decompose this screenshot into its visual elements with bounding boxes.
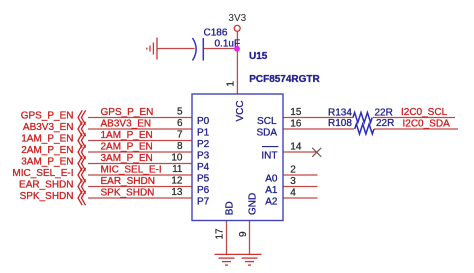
svg-text:C186: C186: [204, 27, 228, 38]
svg-text:7: 7: [177, 130, 183, 141]
svg-text:0.1uF: 0.1uF: [215, 38, 241, 49]
svg-text:I2C0_SDA: I2C0_SDA: [403, 118, 451, 129]
svg-text:GND: GND: [247, 193, 258, 215]
svg-text:P7: P7: [197, 197, 210, 208]
svg-text:MIC_SEL_E-I: MIC_SEL_E-I: [12, 168, 73, 179]
svg-text:P4: P4: [197, 162, 210, 173]
svg-text:VCC: VCC: [235, 100, 246, 121]
svg-text:15: 15: [290, 107, 302, 118]
svg-text:P2: P2: [197, 139, 210, 150]
svg-text:AB3V3_EN: AB3V3_EN: [23, 122, 74, 133]
svg-text:16: 16: [290, 119, 302, 130]
svg-text:GPS_P_EN: GPS_P_EN: [101, 107, 154, 118]
svg-text:I2C0_SCL: I2C0_SCL: [401, 107, 448, 118]
svg-text:GPS_P_EN: GPS_P_EN: [21, 111, 74, 122]
svg-text:SPK_SHDN: SPK_SHDN: [20, 191, 74, 202]
svg-text:P3: P3: [197, 151, 210, 162]
svg-text:BD: BD: [224, 201, 235, 215]
svg-text:17: 17: [214, 228, 225, 240]
svg-text:1AM_P_EN: 1AM_P_EN: [21, 134, 73, 145]
svg-text:2: 2: [290, 165, 296, 176]
svg-text:14: 14: [290, 142, 302, 153]
svg-text:SPK_SHDN: SPK_SHDN: [101, 188, 155, 199]
svg-text:1AM_P_EN: 1AM_P_EN: [101, 130, 153, 141]
svg-text:8: 8: [177, 141, 183, 152]
svg-text:EAR_SHDN: EAR_SHDN: [19, 180, 73, 191]
svg-text:3AM_P_EN: 3AM_P_EN: [101, 153, 153, 164]
svg-text:U15: U15: [249, 51, 268, 62]
svg-text:R108: R108: [328, 118, 352, 129]
svg-text:13: 13: [171, 187, 183, 198]
svg-text:2AM_P_EN: 2AM_P_EN: [101, 142, 153, 153]
svg-text:AB3V3_EN: AB3V3_EN: [101, 119, 152, 130]
svg-text:MIC_SEL_E-I: MIC_SEL_E-I: [101, 165, 162, 176]
svg-text:3AM_P_EN: 3AM_P_EN: [21, 157, 73, 168]
svg-text:11: 11: [172, 164, 183, 175]
svg-text:22R: 22R: [376, 118, 394, 129]
svg-text:P5: P5: [197, 174, 210, 185]
svg-text:6: 6: [177, 118, 183, 129]
svg-text:PCF8574RGTR: PCF8574RGTR: [249, 74, 320, 85]
svg-text:3V3: 3V3: [228, 13, 246, 24]
svg-text:1: 1: [225, 81, 236, 87]
svg-text:P0: P0: [197, 116, 210, 127]
svg-text:2AM_P_EN: 2AM_P_EN: [21, 145, 73, 156]
svg-text:3: 3: [290, 176, 296, 187]
svg-text:12: 12: [171, 176, 183, 187]
svg-text:9: 9: [238, 231, 249, 237]
svg-text:A0: A0: [265, 174, 278, 185]
svg-text:10: 10: [171, 153, 183, 164]
svg-text:P1: P1: [197, 128, 210, 139]
svg-text:EAR_SHDN: EAR_SHDN: [101, 176, 155, 187]
svg-text:SDA: SDA: [256, 128, 277, 139]
svg-text:A2: A2: [265, 197, 278, 208]
svg-text:SCL: SCL: [257, 116, 277, 127]
svg-text:A1: A1: [265, 185, 278, 196]
svg-text:4: 4: [290, 188, 296, 199]
svg-text:P6: P6: [197, 185, 210, 196]
svg-text:5: 5: [177, 107, 183, 118]
svg-text:22R: 22R: [375, 108, 393, 119]
svg-text:INT: INT: [261, 151, 277, 162]
